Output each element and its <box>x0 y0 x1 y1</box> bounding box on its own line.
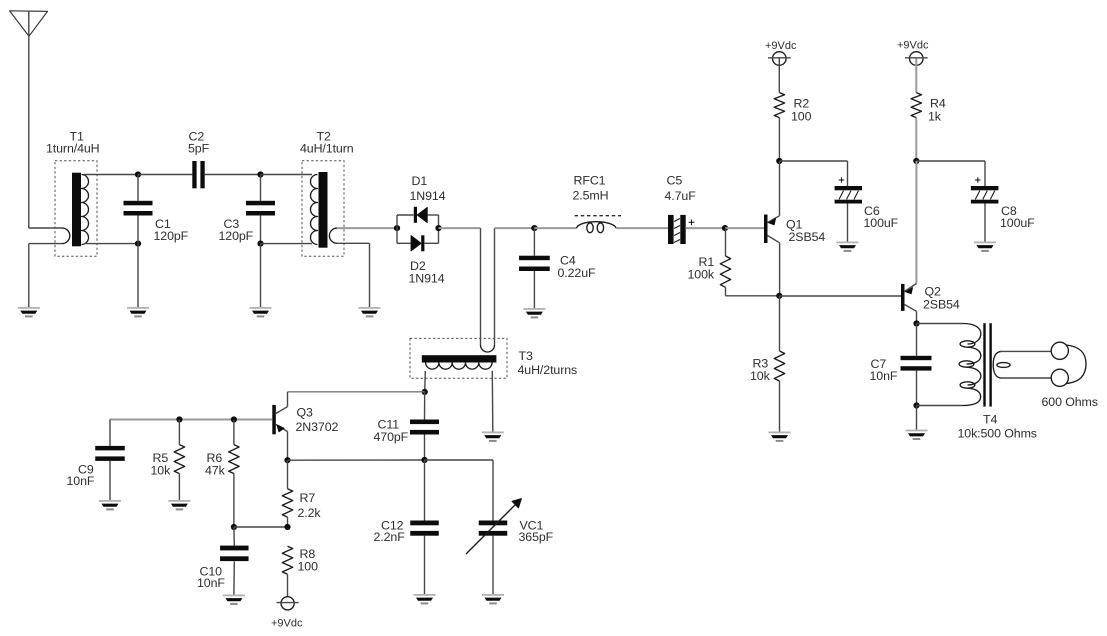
ground (C3) <box>250 307 272 317</box>
transistor Q3 2N3702 (PNP) <box>272 405 287 434</box>
wire node M to ground <box>916 406 918 430</box>
wire C5 to node H <box>686 227 725 229</box>
label R5 <box>151 451 172 477</box>
svg-text:1turn/4uH: 1turn/4uH <box>46 142 100 156</box>
label C2 <box>188 130 210 156</box>
svg-text:600 Ohms: 600 Ohms <box>1042 395 1098 409</box>
wire T1 secondary bottom to node B <box>84 243 138 245</box>
svg-text:100: 100 <box>298 559 319 573</box>
svg-text:10k: 10k <box>750 369 771 383</box>
transformer T3 primary hairpin <box>481 228 495 352</box>
wire Q2 collector to node L <box>916 311 918 323</box>
wire diode branch right riser <box>438 215 440 243</box>
wire T1 primary top leg <box>29 227 62 229</box>
capacitor C2 <box>192 161 204 188</box>
wire node K to C8 <box>916 161 985 186</box>
node H (R1/Q1 base junction) <box>722 225 728 231</box>
wire D2 branch bottom-left <box>397 242 411 244</box>
wire R4 to node K <box>915 118 917 161</box>
svg-text:2N3702: 2N3702 <box>296 420 339 434</box>
wire power to R4 <box>915 59 917 93</box>
svg-text:10nF: 10nF <box>67 474 95 488</box>
capacitor C11 <box>410 392 439 460</box>
wire node F to T3 primary <box>439 227 481 229</box>
label C3 <box>219 217 254 243</box>
svg-text:0.22uF: 0.22uF <box>558 266 597 280</box>
svg-text:1k: 1k <box>928 109 942 123</box>
power +9Vdc (right rail) <box>897 40 929 66</box>
label R1 <box>688 255 715 282</box>
wire T4 secondary to headphone bottom <box>1000 377 1052 379</box>
label C4 <box>558 254 597 281</box>
svg-text:T4: T4 <box>983 413 997 427</box>
transformer T3 core bar <box>422 355 497 362</box>
svg-text:2SB54: 2SB54 <box>789 230 826 244</box>
resistor R4 1k <box>911 93 921 118</box>
transformer T3 secondary winding <box>426 363 493 370</box>
resistor R2 100 <box>774 93 784 118</box>
node L (Q2 collector/C7/T4 top) <box>913 320 919 326</box>
ground (C4) <box>523 308 545 318</box>
wire node D to T2 primary bottom <box>261 243 313 245</box>
capacitor C3 <box>246 175 275 244</box>
wire C2 to node C <box>205 174 261 176</box>
ground (C10) <box>223 595 245 605</box>
svg-text:100k: 100k <box>688 268 715 282</box>
svg-text:4uH/2turns: 4uH/2turns <box>518 363 578 377</box>
transistor Q1 2SB54 (PNP) <box>764 215 780 244</box>
ground (C6) <box>837 242 859 252</box>
wire T3 secondary right down <box>491 371 494 432</box>
node S (R7/R8 junction) <box>284 524 290 530</box>
label C8 <box>1000 204 1035 230</box>
wire node C to T2 primary top <box>261 174 313 176</box>
label T2 <box>300 130 354 156</box>
transformer T2 dashed boundary <box>302 161 344 256</box>
label R4 <box>928 97 946 124</box>
capacitor C5 4.7uF (polarized, series) <box>668 215 694 244</box>
svg-text:2SB54: 2SB54 <box>923 298 960 312</box>
wire T1 secondary top to node A <box>84 174 138 176</box>
node I (Q1 collector/R3/Q2 base) <box>776 293 782 299</box>
node A (T1/C1/C2 junction) <box>135 171 141 177</box>
svg-text:+9Vdc: +9Vdc <box>271 618 303 630</box>
svg-text:120pF: 120pF <box>154 229 189 243</box>
ground (C12) <box>414 594 436 604</box>
svg-text:100uF: 100uF <box>1000 216 1035 230</box>
capacitor C12 <box>410 460 439 594</box>
wire T1 primary to ground <box>28 244 30 307</box>
variable capacitor VC1 365pF <box>466 499 522 595</box>
node N (T3/C11/Q3 collector) <box>422 389 428 395</box>
transformer T1 dashed boundary <box>55 161 97 256</box>
node B (C1 bottom junction) <box>135 241 141 247</box>
wire node G to RFC1 <box>534 227 576 229</box>
wire C6 to ground <box>847 204 849 242</box>
resistor R6 47k <box>229 420 239 528</box>
capacitor C8 100uF (polarized) <box>971 177 999 203</box>
wire D1 branch top-left <box>397 214 414 216</box>
ground (C1) <box>127 307 149 317</box>
wire Q3 collector riser <box>287 392 289 407</box>
svg-text:100uF: 100uF <box>864 216 899 230</box>
wire R1 to node I <box>726 295 780 297</box>
label C9 <box>67 462 95 488</box>
wire Q1 collector to node I <box>779 243 781 296</box>
capacitor C4 <box>519 228 550 308</box>
wire C1 node to ground <box>137 244 139 307</box>
resistor R8 100 <box>282 546 292 597</box>
resistor R5 10k <box>174 420 184 501</box>
node K (R4/C8/Q2 emitter junction) <box>913 158 919 164</box>
resistor R1 100k <box>720 228 730 296</box>
svg-text:D1: D1 <box>412 174 428 188</box>
svg-text:100: 100 <box>791 109 812 123</box>
transformer T4 primary winding <box>959 324 981 406</box>
label C7 <box>870 357 898 383</box>
antenna <box>10 11 48 36</box>
ground (VC1) <box>482 594 504 604</box>
wire C8 to ground <box>984 204 986 242</box>
ground (C9) <box>99 500 121 510</box>
transformer T4 secondary winding <box>993 351 1010 378</box>
svg-text:RFC1: RFC1 <box>574 174 606 188</box>
capacitor C1 <box>124 175 153 244</box>
node J (R2/C6/Q1 emitter junction) <box>776 158 782 164</box>
label D2 <box>409 259 445 286</box>
ground (C7/T4) <box>906 430 928 440</box>
label Q1 <box>786 217 825 244</box>
wire R2 to node J <box>778 118 780 161</box>
label R2 <box>791 97 812 124</box>
node Q (R6/base line) <box>231 416 237 422</box>
wire T3 primary to node G <box>495 227 535 229</box>
label R8 <box>298 547 319 573</box>
node E (diode pair left) <box>394 225 400 231</box>
wire node M to T4 primary bottom <box>917 405 963 407</box>
svg-text:1N914: 1N914 <box>410 189 446 203</box>
transformer T4 core bars <box>983 323 992 406</box>
label T3 <box>518 349 578 377</box>
resistor R7 2.2k <box>282 460 292 527</box>
transformer T1 core bar <box>72 173 81 247</box>
node F (diode pair right) <box>435 225 441 231</box>
label C12 <box>374 519 406 545</box>
label C5 <box>665 174 697 204</box>
ground (R5) <box>168 500 190 510</box>
transformer T1 secondary winding <box>82 175 89 245</box>
wire node L to T4 primary <box>917 323 964 325</box>
svg-text:Q2: Q2 <box>925 284 942 298</box>
node T (C11/C12/VC1 row) <box>421 457 427 463</box>
wire T2 secondary bottom leg <box>337 242 370 244</box>
svg-text:1N914: 1N914 <box>409 272 445 286</box>
wire node R to node S <box>234 526 288 528</box>
wire D1 to right riser <box>427 214 438 216</box>
power +9Vdc (bottom) <box>271 597 303 630</box>
wire diode branch left riser <box>396 215 398 243</box>
ground (antenna/T1) <box>18 307 40 317</box>
label C1 <box>154 217 189 243</box>
node P (R5/base line) <box>176 416 182 422</box>
wire T1 primary bottom leg <box>29 243 62 245</box>
svg-text:2.2nF: 2.2nF <box>374 530 406 544</box>
wire node J to Q1 emitter <box>779 161 781 216</box>
svg-text:47k: 47k <box>205 463 226 477</box>
node O (Q3 emitter/R7/C11 row) <box>284 457 290 463</box>
wire node I to Q2 base <box>779 295 901 297</box>
svg-text:2.5mH: 2.5mH <box>573 189 609 203</box>
wire node T to VC1 riser <box>425 460 494 521</box>
wire D2 to right riser <box>424 242 438 244</box>
transformer T3 dashed boundary <box>410 338 507 378</box>
wire Q3 emitter to node O <box>287 432 289 461</box>
wire node N to Q3 <box>288 391 425 393</box>
label VC1 <box>519 519 554 545</box>
resistor R3 10k <box>774 296 784 432</box>
svg-text:120pF: 120pF <box>219 229 254 243</box>
svg-text:10k: 10k <box>151 463 172 477</box>
inductor RFC1 2.5mH <box>575 216 621 233</box>
label C11 <box>374 418 409 444</box>
svg-text:2.2k: 2.2k <box>298 506 322 520</box>
svg-text:4uH/1turn: 4uH/1turn <box>300 142 354 156</box>
node R (R6/C10/R8 junction) <box>231 524 237 530</box>
svg-text:470pF: 470pF <box>374 430 409 444</box>
transistor Q2 2SB54 (PNP) <box>901 284 917 312</box>
svg-text:365pF: 365pF <box>519 530 554 544</box>
label T4 <box>958 413 1037 441</box>
wire T4 secondary to headphone top <box>1000 350 1052 352</box>
svg-text:10k:500 Ohms: 10k:500 Ohms <box>958 427 1037 441</box>
capacitor C10 <box>220 527 249 595</box>
svg-text:C5: C5 <box>667 174 683 188</box>
label 600 Ohms <box>1042 395 1098 409</box>
wire C9 to Q3 base <box>110 419 272 421</box>
wire antenna down to T1 primary <box>28 36 30 228</box>
capacitor C7 <box>901 324 932 406</box>
wire node J to C6 <box>779 161 847 186</box>
svg-text:R7: R7 <box>300 491 316 505</box>
node M (C7 bottom/T4 bottom/ground) <box>913 402 919 408</box>
label RFC1 <box>573 174 609 203</box>
transformer T2 core bar <box>319 172 328 248</box>
node G (C4 junction) <box>531 225 537 231</box>
transformer T2 primary winding <box>311 175 318 245</box>
svg-text:10nF: 10nF <box>197 576 225 590</box>
wire node H to Q1 base <box>725 227 764 229</box>
ground (T2 secondary) <box>359 307 381 317</box>
wire power to R2 <box>778 59 780 93</box>
node C (C2/C3/T2 junction) <box>257 171 263 177</box>
wire RFC1 to C5 <box>616 227 668 229</box>
diode D2 1N914 (cathode right) <box>411 235 424 251</box>
svg-text:Q3: Q3 <box>297 405 314 419</box>
label T1 <box>46 130 100 156</box>
wire T2 secondary bottom to ground <box>369 243 371 307</box>
wire T2 output to diode node E <box>337 227 397 229</box>
svg-text:+9Vdc: +9Vdc <box>897 40 929 52</box>
wire T3 secondary left to node N <box>424 371 427 392</box>
label Q2 <box>923 284 960 311</box>
label R7 <box>298 491 322 520</box>
svg-text:10nF: 10nF <box>870 369 898 383</box>
diode D1 1N914 (cathode left) <box>414 207 428 223</box>
label Q3 <box>296 405 339 433</box>
label D1 <box>410 174 446 203</box>
label C6 <box>864 204 899 230</box>
transformer T2 secondary 1-turn loop <box>329 228 337 243</box>
node D (C3 bottom junction) <box>257 241 263 247</box>
svg-text:5pF: 5pF <box>188 142 210 156</box>
capacitor C6 100uF (polarized) <box>835 177 862 203</box>
label R6 <box>205 451 226 477</box>
ground (C8) <box>974 242 996 252</box>
power +9Vdc (left rail) <box>765 40 797 65</box>
svg-text:T3: T3 <box>519 349 533 363</box>
wire C3 node to ground <box>260 244 262 307</box>
ground (T3 secondary) <box>482 432 504 442</box>
transformer T1 primary 1-turn loop <box>62 228 70 244</box>
label C10 <box>197 565 225 591</box>
wire node O to C11 bottom row <box>288 459 425 461</box>
headphones 600 Ohms <box>1051 342 1086 386</box>
capacitor C9 <box>95 420 125 501</box>
label R3 <box>750 357 771 383</box>
svg-text:4.7uF: 4.7uF <box>665 189 697 203</box>
wire node K to Q2 emitter <box>915 161 917 284</box>
ground (R3) <box>769 432 791 442</box>
wire node A to C2 <box>138 174 192 176</box>
svg-text:+9Vdc: +9Vdc <box>765 40 797 52</box>
